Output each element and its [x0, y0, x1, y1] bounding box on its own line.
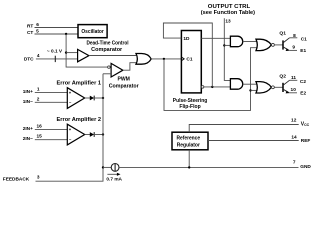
op-amp EA2 triangle	[67, 124, 84, 145]
pin 8 C1	[290, 37, 298, 39]
wire to DT comparator upper input	[66, 52, 78, 54]
svg-text:11: 11	[291, 75, 296, 81]
diode D1	[90, 96, 94, 101]
svg-text:1D: 1D	[183, 36, 190, 42]
bubble NOR2 output	[271, 86, 274, 89]
oscillator box	[78, 25, 107, 38]
svg-text:FEEDBACK: FEEDBACK	[3, 177, 30, 183]
svg-text:4: 4	[37, 53, 40, 59]
svg-text:2IN−: 2IN−	[23, 136, 33, 142]
bubble PWM input	[108, 66, 111, 69]
wire regulator to VCC	[189, 125, 299, 133]
pin 11 C2	[290, 79, 298, 81]
svg-text:Reference: Reference	[177, 135, 201, 141]
svg-text:Q2: Q2	[279, 74, 286, 80]
svg-text:Error Amplifier 1: Error Amplifier 1	[57, 80, 102, 86]
node CT junction	[65, 33, 67, 35]
wire PWM lower input from feedback bus	[103, 73, 111, 75]
reference regulator box	[172, 132, 208, 150]
node EA1 to bus	[102, 97, 104, 99]
svg-text:3: 3	[37, 175, 40, 181]
wire 1IN-	[35, 101, 68, 103]
flip-flop U3 box	[181, 31, 201, 93]
svg-text:C1: C1	[186, 57, 192, 63]
svg-text:VCC: VCC	[301, 122, 310, 128]
wire NOR2 to Q2 base	[274, 86, 282, 88]
svg-text:CT: CT	[27, 30, 33, 36]
node bus to current source	[102, 166, 104, 168]
svg-text:15: 15	[36, 134, 42, 140]
svg-text:10: 10	[291, 87, 297, 93]
svg-text:9: 9	[292, 45, 295, 51]
svg-text:Regulator: Regulator	[177, 142, 201, 148]
wire pin13 to AND1 input	[224, 44, 230, 46]
svg-text:(see Function Table): (see Function Table)	[201, 10, 255, 16]
pin 10 E2	[289, 92, 297, 94]
pin 9 E1	[289, 49, 297, 51]
wire regulator to GND	[188, 150, 190, 168]
wire OR1 output to flip-flop clock	[151, 58, 181, 60]
wire Qbar output to AND2	[204, 86, 231, 88]
svg-text:Oscillator: Oscillator	[81, 29, 104, 35]
bubble Qbar output	[201, 86, 204, 89]
wire feedback bus vertical	[36, 74, 104, 181]
svg-text:7: 7	[293, 160, 296, 166]
wire AND2 output	[243, 83, 257, 85]
arrow current direction	[107, 173, 117, 175]
svg-text:GND: GND	[300, 164, 311, 170]
svg-text:E2: E2	[300, 91, 306, 97]
wire CT sawtooth vertical	[66, 34, 108, 67]
svg-text:Error Amplifier 2: Error Amplifier 2	[57, 117, 102, 123]
wire 2IN-	[35, 139, 68, 141]
wire PWM output	[123, 63, 136, 70]
node blanking to NOR2	[249, 89, 251, 91]
svg-text:Pulse-Steering: Pulse-Steering	[173, 98, 208, 104]
wire current source to GND line	[119, 166, 299, 168]
svg-text:Q1: Q1	[279, 30, 286, 36]
svg-text:8: 8	[293, 33, 296, 39]
svg-text:16: 16	[36, 123, 42, 129]
svg-text:0.7 mA: 0.7 mA	[106, 177, 122, 183]
node Qbar feedback junction	[211, 86, 213, 88]
svg-text:13: 13	[225, 18, 231, 24]
wire 2IN+	[35, 128, 68, 130]
svg-text:2: 2	[37, 96, 40, 102]
wire DTC	[36, 58, 78, 60]
diode D2	[90, 132, 94, 137]
svg-text:5: 5	[36, 28, 39, 34]
wire NOR1 to Q1 base	[274, 44, 282, 46]
svg-text:RT: RT	[27, 24, 33, 30]
current source I1	[111, 164, 119, 172]
svg-text:Comparator: Comparator	[91, 47, 123, 53]
gate NOR1	[256, 39, 271, 50]
wire toggle feedback loop to 1D	[163, 23, 212, 87]
svg-text:Dead-Time Control: Dead-Time Control	[87, 41, 129, 47]
svg-text:REF: REF	[301, 138, 311, 144]
op-amp EA1 triangle	[67, 88, 84, 109]
wire EA1 output	[85, 97, 90, 99]
bubble NOR1 output	[271, 43, 274, 46]
wire blanking line to NOR gates	[164, 48, 257, 111]
wire EA2 output	[85, 134, 90, 136]
svg-text:E1: E1	[300, 48, 306, 54]
svg-text:C2: C2	[300, 79, 306, 85]
node regulator GND junction	[188, 166, 190, 168]
wire regulator to REF pin 14	[208, 140, 299, 142]
clock wedge	[181, 57, 184, 61]
node pin13 to AND1	[223, 44, 225, 46]
wire output ctrl pin 13	[224, 18, 230, 80]
wire RT	[35, 27, 79, 29]
gate NOR2	[256, 82, 271, 93]
gate OR1	[136, 54, 151, 65]
offset source 0.1V bar	[54, 56, 56, 62]
svg-text:1: 1	[37, 86, 40, 92]
svg-text:12: 12	[291, 118, 297, 124]
wire 1IN+	[35, 91, 68, 93]
gate AND2	[230, 79, 242, 90]
svg-text:1IN−: 1IN−	[23, 99, 33, 105]
svg-text:Flip-Flop: Flip-Flop	[179, 104, 201, 110]
svg-text:~ 0.1 V: ~ 0.1 V	[47, 49, 63, 55]
wire blanking to NOR2 input	[251, 89, 257, 91]
comparator U1 dead-time	[78, 49, 89, 61]
svg-text:C1: C1	[301, 36, 307, 42]
node OR1 output junction	[163, 58, 165, 60]
wire bus to current source	[103, 166, 111, 168]
svg-text:DTC: DTC	[24, 56, 34, 62]
wire DT comparator output	[89, 55, 136, 57]
wire Q output to AND1	[201, 37, 230, 39]
wire CT	[35, 33, 79, 35]
svg-text:1IN+: 1IN+	[23, 89, 33, 95]
comparator U2 PWM	[111, 63, 123, 77]
node sawtooth to DT comparator	[65, 51, 67, 53]
svg-text:14: 14	[291, 134, 297, 140]
gate AND1	[230, 36, 242, 47]
svg-text:Comparator: Comparator	[109, 83, 140, 89]
wire AND1 output	[243, 41, 257, 43]
svg-text:2IN+: 2IN+	[23, 126, 33, 132]
svg-text:PWM: PWM	[118, 77, 131, 83]
node EA2 to bus	[102, 133, 104, 135]
